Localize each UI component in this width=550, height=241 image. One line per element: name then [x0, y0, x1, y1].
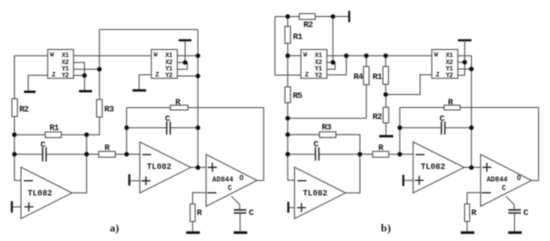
svg-text:W: W [50, 51, 54, 58]
resistor R5 [285, 87, 291, 103]
minus marker A2b [416, 154, 425, 156]
minus marker U3 [207, 192, 216, 194]
svg-text:C: C [165, 114, 170, 124]
terminal bar A1b plus [287, 202, 289, 213]
capacitor C (feedback of A1b) [315, 147, 319, 160]
ground under R (b) [461, 231, 475, 234]
capacitor C (feedback of A1) [43, 147, 47, 161]
wire: U2 X2-Y1 bridge [177, 63, 187, 70]
svg-text:AD844: AD844 [212, 176, 233, 184]
wire: U1.Z to ground [28, 75, 48, 90]
svg-text:a): a) [110, 222, 120, 234]
svg-text:R1: R1 [49, 123, 59, 133]
minus marker A2 [142, 154, 151, 156]
wire: opamp A1 output column [72, 135, 87, 193]
wire: node A1-in junction rows [14, 134, 86, 136]
plus marker A1b [297, 203, 306, 212]
capacitor C (AD844 TZ, b) [508, 210, 521, 213]
svg-text:W: W [154, 51, 158, 58]
resistor R3 (b) [319, 132, 336, 138]
wire: cap feedback row b [400, 127, 472, 129]
op-amp A2b TL082 [413, 142, 464, 193]
svg-text:TL082: TL082 [421, 163, 446, 172]
wire: U5.Y1 stub [458, 68, 472, 70]
wire: node to U4.W [288, 55, 301, 57]
wire: A1 plus input [13, 206, 22, 208]
svg-text:R3: R3 [322, 122, 332, 132]
wire: U4.X2 stub [327, 61, 333, 63]
wire: cap feedback row [127, 127, 198, 129]
wire: A2b plus input [404, 179, 413, 181]
junction dots circuit b [285, 14, 473, 170]
ground under R (a) [186, 231, 200, 234]
ground under C (b) [508, 231, 522, 234]
resistor R (loop, circuit a) [170, 105, 188, 110]
svg-text:C: C [502, 185, 506, 193]
wire: X1 row b [327, 55, 432, 57]
wire: R3 bottom to A1 output node [87, 117, 100, 135]
capacitor C (feedback of A2b) [441, 122, 445, 135]
svg-text:TL082: TL082 [303, 190, 328, 199]
op-amp U6 AD844 [481, 154, 532, 206]
svg-text:X1: X1 [315, 52, 323, 59]
minus marker A1 [24, 180, 33, 182]
svg-text:Z: Z [436, 71, 440, 78]
terminal bar A1 plus [11, 201, 13, 212]
wire: top rail left leg down to U4.Z [275, 17, 301, 76]
wire: R2b leads to ground [385, 95, 387, 135]
svg-text:R2: R2 [19, 104, 29, 114]
svg-text:X1: X1 [165, 52, 173, 59]
ground under U2 Z [133, 89, 147, 91]
label U4 pins [303, 51, 322, 79]
capacitor C (feedback of A2) [167, 122, 171, 135]
wire: U6 minus to R [467, 193, 481, 204]
svg-text:X1: X1 [62, 52, 70, 59]
plus marker A2 [141, 176, 150, 185]
wire: R2 top right leg down to U4.X2 [332, 17, 334, 63]
svg-text:b): b) [381, 222, 391, 234]
svg-text:W: W [434, 51, 438, 58]
wire: C right to output column [47, 153, 87, 155]
svg-text:C: C [41, 140, 46, 150]
wire: U5 X2 down to Y2 [458, 62, 465, 75]
resistor R1 [45, 132, 61, 138]
svg-text:C: C [314, 139, 319, 149]
svg-text:O: O [517, 175, 521, 183]
junction dots circuit a [12, 54, 200, 170]
label AD844 (b) [487, 175, 521, 193]
wire: U2 output column [197, 30, 199, 168]
plus marker U3 [208, 163, 217, 172]
wire: series R row from A1 out to A2 in [87, 153, 127, 155]
svg-text:R3: R3 [104, 105, 114, 115]
label U5 pins [434, 51, 453, 79]
resistor R1 (b) [285, 26, 291, 43]
multiplier U4 box [301, 50, 327, 79]
wire: circuit a, W of U1 to R2 column [14, 56, 47, 99]
resistor R2 (b top) [299, 14, 315, 20]
wire: supply stem to U5.X2 [464, 40, 466, 62]
wire: R1 vertical leads [287, 17, 289, 56]
terminal bar A2b plus [402, 175, 404, 186]
wire: R1b leads [385, 56, 387, 95]
resistor R2 [12, 99, 18, 117]
wire: U5.X2 stub [458, 61, 465, 63]
svg-text:R1: R1 [293, 32, 303, 42]
svg-text:R4: R4 [354, 72, 364, 82]
wire: output column b [470, 69, 472, 168]
svg-text:C: C [440, 114, 445, 124]
svg-text:C: C [523, 208, 528, 218]
svg-text:R5: R5 [293, 91, 303, 101]
ground under C (a) [234, 231, 248, 234]
svg-text:O: O [239, 175, 243, 183]
wire: U3 minus to R [193, 193, 207, 204]
plus marker U6 [482, 163, 491, 172]
wire: R to ground [192, 222, 194, 232]
wire: U1.X2 down to Y2 [74, 63, 85, 76]
wire: column B to A1b inverting input [288, 118, 295, 180]
resistor R (AD844 minus, b) [465, 204, 470, 222]
svg-text:C: C [249, 208, 254, 218]
ground under U1 Z [24, 91, 36, 93]
wire: U1.Y2 to ground [74, 76, 85, 91]
wire: capacitor to ground b [514, 214, 516, 232]
wire: U2.Z to ground [139, 75, 151, 89]
wire: column B down to R5 [287, 56, 289, 87]
plus marker A1 [24, 202, 33, 211]
wire: U3 C pin to capacitor [231, 196, 239, 209]
svg-text:W: W [303, 51, 307, 58]
wire: Cb row [288, 153, 360, 155]
plus marker A2b [415, 176, 424, 185]
wire: U4 X2-Y1 bridge [327, 62, 335, 69]
resistor R4 [364, 67, 370, 85]
wire: U2.X2 to supply stem [177, 41, 185, 62]
wire: A2 inverting column [127, 108, 140, 155]
ground under R2b [379, 135, 393, 137]
svg-text:TL082: TL082 [28, 190, 53, 199]
wire: series R row b [360, 153, 413, 155]
resistor R2 (b right) [383, 107, 389, 123]
wire: U5.X1 to output column [458, 56, 472, 69]
wire: U1.X1 to U2.W [74, 55, 152, 57]
op-amp A2 TL082 [140, 142, 191, 193]
ground under U1 X2/Y2 [79, 90, 92, 92]
svg-text:R2: R2 [303, 20, 313, 30]
wire: U2.X1 to output column [177, 55, 198, 57]
svg-text:C: C [228, 185, 232, 193]
wire: circuit b top rail [275, 16, 349, 18]
wire: U1.Y1 to R3 column [74, 68, 100, 70]
terminal bar A2 plus [128, 174, 130, 185]
resistor R (series, b) [373, 151, 389, 157]
supply T-bar above U5 [458, 39, 472, 41]
svg-text:TL082: TL082 [147, 163, 172, 172]
wire: A1b output column [346, 154, 360, 193]
wire: R3b row [288, 135, 360, 155]
op-amp U3 AD844 [206, 154, 257, 206]
wire: C row left [14, 153, 42, 155]
wire: R to ground b [466, 222, 468, 232]
svg-text:R2: R2 [373, 112, 383, 122]
wire: node R1b/R2b to U5.Z [386, 75, 432, 95]
wire: loop row b [400, 108, 539, 181]
wire: A1b plus input [289, 207, 295, 209]
multiplier U5 box [432, 50, 458, 79]
op-amp A1 TL082 [21, 167, 72, 218]
supply T-bar above U2 [179, 39, 192, 41]
wire: capacitor to ground [239, 214, 241, 232]
capacitor C (AD844 TZ, a) [234, 210, 247, 213]
resistor R3 [97, 100, 103, 118]
op-amp A1b TL082 [295, 167, 346, 218]
wire: R2 bottom to opamp A1 inverting input [14, 117, 21, 181]
label U2 pins [154, 51, 173, 79]
wire: bottom row to R4 [288, 85, 367, 119]
resistor R (loop, b) [444, 105, 460, 110]
resistor R (series, circuit a) [99, 151, 116, 157]
svg-text:AD844: AD844 [487, 176, 508, 184]
svg-text:X1: X1 [446, 52, 454, 59]
multiplier U2 box [151, 50, 177, 79]
wire: loop row from A2 input to AD844 output [127, 108, 264, 181]
minus marker A1b [298, 180, 307, 182]
wire: top loop from R3 column to U2 output column [99, 30, 197, 100]
wire: A2b output to AD844b plus [464, 166, 481, 168]
resistor R1 (b right) [383, 67, 389, 85]
svg-text:Y2: Y2 [62, 72, 70, 79]
wire: A2b inverting column [399, 108, 401, 155]
label U1 pins [50, 51, 69, 79]
svg-text:Y2: Y2 [315, 72, 323, 79]
resistor R (AD844 minus, a) [190, 204, 195, 222]
svg-text:Y2: Y2 [165, 72, 173, 79]
terminal bar b top [348, 11, 350, 22]
wire: U2.Y2 to output column [177, 75, 198, 77]
wire: R4 top lead [365, 56, 367, 67]
svg-text:Z: Z [305, 71, 309, 78]
wire: R5 bottom to node row [287, 103, 289, 119]
svg-text:Z: Z [155, 71, 159, 78]
svg-text:R1: R1 [373, 72, 383, 82]
label AD844 [212, 175, 243, 193]
multiplier U1 box [48, 50, 74, 79]
minus marker U6 [482, 192, 491, 194]
svg-text:Y2: Y2 [446, 72, 454, 79]
wire: U4.Y2 up to X1 row [327, 56, 346, 75]
wire: A2 output to AD844 plus [191, 166, 206, 168]
wire: A2 plus input [130, 180, 140, 182]
wire: U6 C pin to capacitor [506, 196, 514, 209]
svg-text:Z: Z [52, 71, 56, 78]
